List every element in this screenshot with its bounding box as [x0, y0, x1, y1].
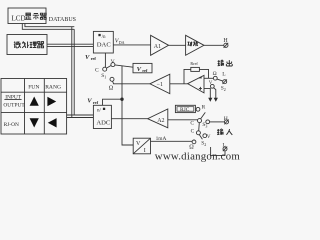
svg-text:A2: A2: [157, 118, 164, 124]
wire Vref rail vertical: [122, 66, 133, 145]
switch S2 input common C: [196, 131, 200, 135]
svg-text:INPUT: INPUT: [5, 95, 22, 101]
output contact ohm: [213, 76, 217, 80]
wire Vref to ADC: [103, 99, 123, 105]
svg-text:V: V: [137, 66, 142, 73]
wire -1 to opamp output node: [170, 83, 188, 85]
wire S1-V to Vref box: [115, 65, 133, 67]
keypad table: [1, 79, 67, 135]
box Vref: [133, 63, 152, 72]
text 微处理器: [14, 41, 21, 48]
switch S2 output arm: [217, 79, 223, 81]
wire ADC to A2: [111, 118, 147, 120]
wire A2 to S3 common: [168, 119, 198, 121]
svg-text:RJC: RJC: [180, 107, 190, 113]
wire opamp plus to ground arrow: [204, 88, 210, 98]
svg-text:V: V: [207, 135, 211, 140]
svg-text:ref: ref: [142, 68, 148, 73]
svg-text:V: V: [111, 59, 115, 65]
switch S1 contact V: [111, 63, 115, 67]
svg-text:RJ-ON: RJ-ON: [4, 122, 19, 128]
opamp signs: [199, 77, 202, 79]
wire RJC to R contact: [194, 108, 197, 110]
bus vertical DATABUS: [72, 27, 74, 118]
svg-text:LCD: LCD: [12, 14, 26, 22]
text DAC symbol: [98, 34, 100, 36]
svg-text:ref: ref: [91, 56, 97, 61]
svg-text:FUN: FUN: [28, 85, 39, 91]
svg-text:ref: ref: [93, 100, 99, 105]
svg-text:Ω: Ω: [213, 71, 217, 77]
op-amp U1: [188, 75, 204, 93]
keypad arrows: [30, 97, 39, 106]
svg-text:ADC: ADC: [96, 119, 111, 126]
output cluster labels: [218, 60, 224, 66]
svg-text:C: C: [95, 67, 99, 73]
svg-text:/n: /n: [102, 35, 106, 40]
svg-text:V: V: [209, 81, 213, 86]
wire V contact to ground arrow: [214, 88, 216, 99]
underline INPUT: [4, 99, 21, 101]
wire opamp minus input: [204, 77, 213, 79]
svg-text:Ω: Ω: [109, 85, 114, 91]
svg-text:A1: A1: [154, 44, 161, 50]
svg-text:2: 2: [224, 87, 226, 92]
box ADC: [93, 105, 111, 128]
svg-text:RANG: RANG: [45, 85, 61, 91]
power amp 功放: [186, 35, 204, 55]
op-amp A1: [151, 35, 169, 55]
switch S2 input arm: [199, 135, 202, 140]
bus keypad to ADC: [67, 115, 94, 118]
svg-text:H: H: [224, 116, 228, 122]
switch S1 arm: [107, 66, 112, 69]
contact ohm input: [192, 140, 196, 144]
op-amp A2: [148, 109, 168, 128]
terminal H output: [224, 43, 228, 47]
svg-text:R: R: [202, 104, 206, 110]
wire DAC out to A1: [113, 44, 150, 46]
box LCD display 液晶显示器: [8, 8, 46, 24]
terminal L input: [223, 147, 227, 151]
junction dot Vref/ADC: [120, 98, 123, 101]
svg-text:V: V: [136, 141, 141, 147]
box V/I converter: [133, 138, 150, 154]
svg-text:L: L: [222, 142, 226, 148]
svg-text:3: 3: [205, 123, 207, 128]
svg-text:n/: n/: [97, 109, 102, 114]
svg-text:I: I: [144, 148, 146, 154]
contact V input: [203, 134, 207, 138]
box DAC: [93, 31, 113, 53]
svg-text:V: V: [85, 54, 90, 61]
inverter -1: [150, 74, 170, 93]
switch S1 contact ohm: [110, 77, 114, 81]
svg-text:2: 2: [204, 142, 206, 147]
feedback loop with Rref: [184, 69, 209, 83]
terminal L output: [223, 80, 227, 84]
bus LCD to databus (double L): [22, 24, 74, 30]
svg-text:V: V: [87, 98, 92, 105]
svg-text:DA: DA: [119, 40, 125, 45]
wire DAC Vref down to S1: [104, 53, 106, 67]
wire ohm contact to -1 amp: [113, 81, 150, 84]
svg-text:OUTPUT: OUTPUT: [3, 103, 25, 109]
svg-text:H: H: [223, 38, 228, 44]
switch S3 arm: [201, 112, 206, 119]
switch S1 common C: [103, 67, 107, 71]
svg-text:−1: −1: [157, 82, 163, 88]
wire V/I 1mA to ohm contact: [151, 140, 193, 142]
box RJC: [175, 105, 195, 112]
svg-text:www.diangon.com: www.diangon.com: [155, 150, 240, 162]
wire S3 common down to S2: [198, 123, 201, 131]
svg-text:1: 1: [104, 75, 106, 80]
terminal H input: [225, 120, 229, 124]
text 功放: [188, 42, 193, 47]
ground arrow 1 head: [208, 98, 212, 102]
bus micro to DAC: [47, 44, 93, 46]
contact R: [196, 107, 200, 111]
wire A1 to power amp: [169, 44, 186, 46]
wire L input down-left: [211, 147, 225, 155]
switch S3 contact to H input: [206, 120, 210, 124]
svg-text:L: L: [222, 71, 226, 77]
wire power amp to terminal H: [204, 44, 224, 46]
svg-text:DATABUS: DATABUS: [49, 17, 76, 23]
ground arrow 2 head: [214, 98, 218, 102]
switch S3 common C: [198, 119, 202, 123]
svg-text:1mA: 1mA: [156, 136, 167, 142]
svg-text:Rref: Rref: [190, 61, 198, 66]
output contact V: [210, 84, 214, 88]
svg-text:C: C: [190, 120, 194, 126]
box microprocessor 微处理器: [7, 35, 47, 55]
svg-text:DAC: DAC: [97, 41, 112, 48]
svg-text:C: C: [191, 129, 195, 135]
resistor Rref: [191, 67, 200, 71]
